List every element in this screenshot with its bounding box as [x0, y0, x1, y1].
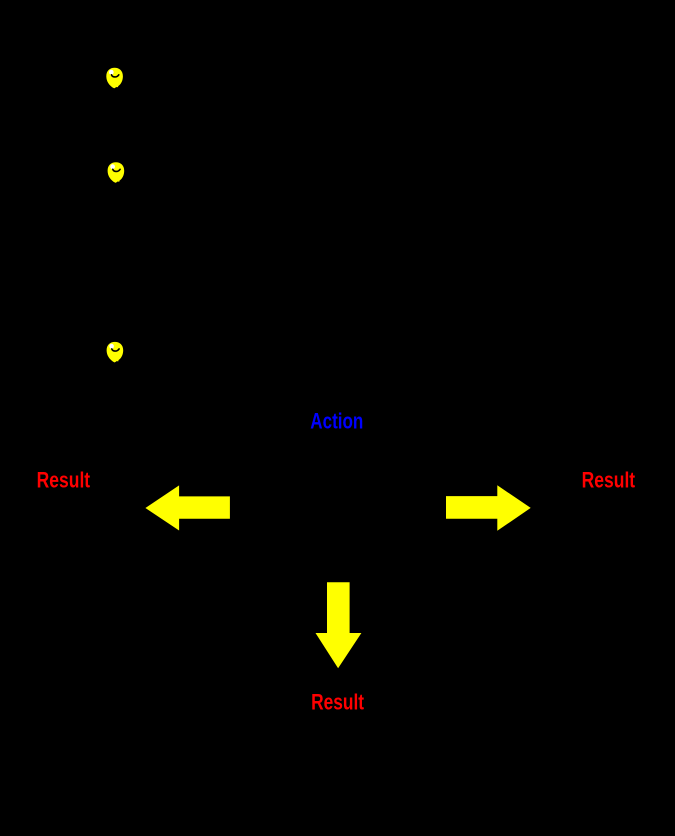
balloon icon 1: [106, 68, 123, 88]
svg-text:Result: Result: [311, 690, 365, 715]
right block arrow: [446, 485, 531, 531]
svg-text:Action: Action: [310, 408, 363, 433]
balloon icon 3: [107, 342, 124, 362]
left block arrow: [145, 485, 230, 530]
down block arrow: [316, 582, 362, 668]
svg-text:Result: Result: [37, 467, 91, 492]
balloon icon 2: [108, 162, 125, 182]
svg-text:Result: Result: [582, 467, 636, 492]
